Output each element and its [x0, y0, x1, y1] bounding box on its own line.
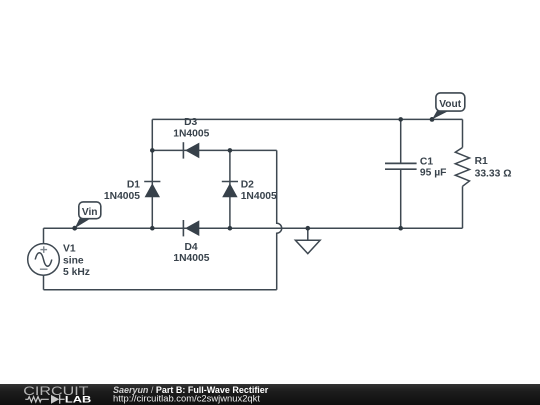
wire right bridge vertical with hop over mid rail — [277, 150, 282, 289]
diode D2 — [222, 182, 238, 198]
svg-text:D4: D4 — [184, 242, 197, 253]
svg-text:V1: V1 — [63, 244, 76, 255]
wire top rail (Vout net) — [152, 118, 462, 120]
resistor R1 — [455, 148, 469, 187]
svg-text:C1: C1 — [420, 156, 433, 167]
wire V1 top lead — [43, 228, 45, 244]
svg-text:sine: sine — [63, 255, 84, 266]
logo resistor zigzag — [25, 397, 49, 402]
node bridge bottom-left — [150, 226, 155, 231]
diode D1 — [144, 182, 160, 198]
wire C1 top lead — [400, 119, 402, 163]
node Vin flag — [72, 202, 101, 231]
wire V1 bottom lead — [43, 275, 45, 290]
capacitor C1 — [385, 163, 417, 169]
wire D3 row — [152, 149, 276, 151]
diode D4 — [183, 220, 199, 236]
node C1 top — [398, 117, 403, 122]
junction dots — [150, 117, 403, 230]
svg-text:33.33 Ω: 33.33 Ω — [475, 168, 512, 179]
wire left vertical x=152 — [151, 119, 153, 228]
svg-text:D2: D2 — [241, 179, 254, 190]
wire R1 bottom lead — [462, 186, 464, 228]
svg-text:D3: D3 — [184, 117, 197, 128]
svg-text:Vout: Vout — [439, 99, 461, 110]
svg-text:D1: D1 — [127, 179, 140, 190]
wire middle vertical x=230 — [229, 150, 231, 228]
svg-text:LAB: LAB — [65, 395, 92, 405]
node Vout flag — [430, 93, 465, 122]
wire mid rail — [44, 227, 463, 229]
svg-text:95 µF: 95 µF — [420, 168, 447, 179]
wire C1 bottom lead — [400, 169, 402, 228]
svg-text:1N4005: 1N4005 — [173, 253, 209, 264]
svg-text:Vin: Vin — [82, 207, 98, 218]
svg-text:1N4005: 1N4005 — [104, 191, 140, 202]
svg-text:R1: R1 — [475, 156, 488, 167]
node bridge bottom-right — [228, 226, 233, 231]
logo diode — [51, 395, 59, 404]
wire ground stub — [307, 228, 309, 240]
voltage source V1 — [28, 244, 60, 276]
svg-text:1N4005: 1N4005 — [241, 191, 277, 202]
ground — [295, 240, 320, 253]
node bridge top-right — [228, 148, 233, 153]
wire bottom rail — [44, 289, 277, 291]
svg-text:http://circuitlab.com/c2swjwnu: http://circuitlab.com/c2swjwnux2qkt — [113, 394, 261, 404]
svg-text:1N4005: 1N4005 — [173, 128, 209, 139]
svg-text:5 kHz: 5 kHz — [63, 267, 90, 278]
node C1 bottom — [398, 226, 403, 231]
diode D3 — [183, 142, 199, 158]
node bridge top-left — [150, 148, 155, 153]
footer bar — [0, 384, 540, 405]
wire R1 top lead — [462, 119, 464, 147]
node ground junction — [306, 226, 311, 231]
